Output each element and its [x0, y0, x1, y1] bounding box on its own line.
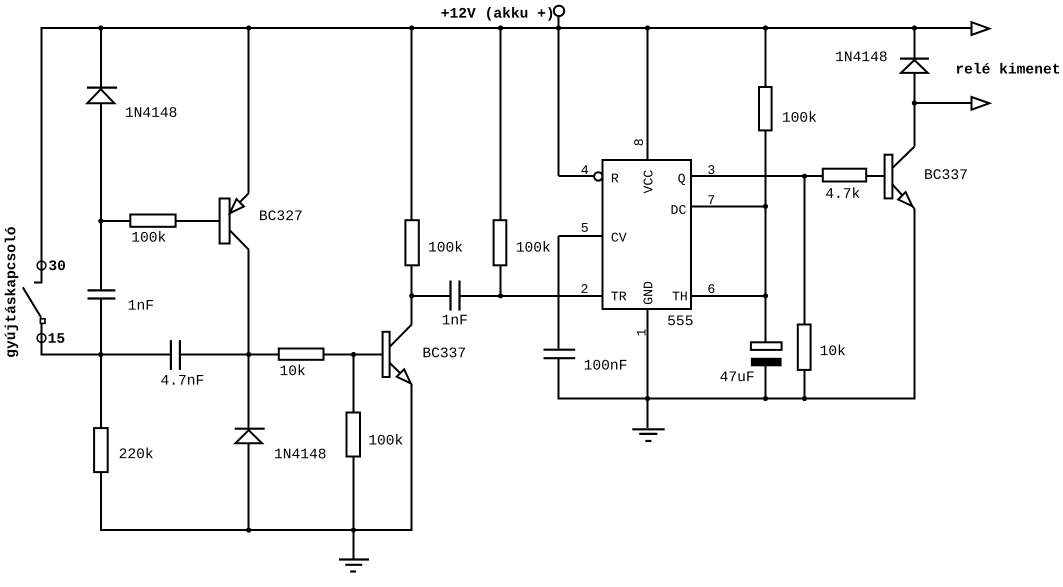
wire main node line left [41, 354, 170, 356]
capacitor C5 47uF negative plate [751, 358, 782, 367]
svg-text:555: 555 [667, 314, 693, 330]
svg-text:5: 5 [581, 221, 589, 236]
diode D1 cathode bar [87, 86, 117, 88]
svg-text:R: R [611, 171, 619, 186]
node dot TH pin line [763, 293, 768, 298]
wire BC327 collector down to diode D2 [248, 250, 250, 428]
wire x101 diode D1 to C 1nF [100, 103, 102, 289]
transistor Q3 BC337 emitter arrow [898, 192, 912, 206]
wire diode D3 to relay node [913, 73, 915, 104]
wire x765 top rail through R 100k to C 47uF [765, 27, 767, 342]
terminal circle 15 [37, 334, 46, 343]
transistor Q3 BC337 emitter diagonal [892, 184, 914, 208]
svg-text:BC327: BC327 [259, 209, 303, 225]
svg-text:100k: 100k [516, 241, 551, 257]
svg-text:30: 30 [48, 259, 66, 275]
svg-text:BC337: BC337 [422, 346, 466, 362]
transistor Q3 BC337 base bar [885, 155, 893, 199]
resistor R2 220k [94, 428, 108, 472]
wire pin 7 DC lead [691, 205, 766, 207]
node dot relay output [912, 100, 917, 105]
wire x412 top rail through R 100k to node [411, 27, 413, 296]
svg-text:10k: 10k [279, 364, 306, 380]
wire pin 4 R lead [559, 175, 595, 177]
wire x353 through R 100k to bottom rail [353, 355, 355, 532]
svg-text:220k: 220k [119, 447, 154, 463]
wire left rail to switch contact [41, 27, 43, 283]
node dot base Q1 [98, 218, 103, 223]
resistor R9 4.7k base of Q3 [823, 169, 866, 182]
switch blade gyújtáskapcsoló [23, 287, 41, 317]
svg-text:CV: CV [611, 231, 627, 246]
svg-text:3: 3 [707, 163, 715, 178]
diode D2 cathode bar [235, 428, 265, 430]
svg-text:6: 6 [707, 282, 715, 297]
wire x804 node through R 10k to right ground rail [804, 176, 806, 399]
wire TR node line right of C 1nF to pin 2 [461, 295, 603, 297]
diode D2 1N4148 triangle [236, 430, 263, 443]
diode D3 1N4148 triangle [901, 60, 928, 73]
svg-text:1N4148: 1N4148 [835, 50, 888, 66]
wire BC337 right base [866, 175, 884, 177]
svg-text:1nF: 1nF [128, 299, 154, 315]
wire pin 1 GND [647, 309, 649, 400]
transistor Q2 BC337 collector diagonal [389, 324, 411, 347]
resistor R5 100k collector load [405, 220, 418, 265]
resistor R7 100k timing [759, 87, 772, 130]
resistor R3 100k base of Q2 [347, 413, 361, 457]
svg-text:4: 4 [581, 163, 589, 178]
svg-text:100k: 100k [131, 231, 166, 247]
svg-text:GND: GND [641, 281, 656, 305]
ground symbol left bars [339, 558, 369, 560]
transistor Q1 BC327 emitter diagonal [229, 193, 248, 213]
terminal circle 30 [37, 261, 46, 270]
node dots on +12V rail [98, 25, 103, 30]
wire top rail to pin 4 reset [558, 27, 560, 176]
svg-text:47uF: 47uF [720, 370, 755, 386]
svg-text:100k: 100k [782, 111, 817, 127]
transistor Q2 BC337 emitter arrow [397, 369, 411, 383]
wire BC337 mid emitter vertical to bottom rail [411, 384, 413, 531]
wire terminal 15 stub [41, 323, 43, 356]
wire BC327 base [101, 220, 220, 222]
wire top rail to diode D3 [913, 27, 915, 58]
transistor Q2 BC337 emitter diagonal [389, 363, 411, 385]
wire pin 5 CV lead [559, 235, 603, 237]
wire +12V terminal stub [558, 16, 560, 29]
ground symbol right bars [632, 428, 664, 430]
transistor Q1 BC327 emitter arrow [230, 199, 244, 213]
resistor R6 100k pull-up [494, 220, 507, 265]
wire x500 top rail through R 100k to TR node [500, 27, 502, 296]
resistor R8 10k vertical [798, 325, 811, 370]
wire relay node to BC337 right collector [913, 103, 915, 147]
wire pin 8 VCC [647, 27, 649, 160]
node dots right ground rail [645, 396, 650, 401]
node dot DC pin line [763, 204, 768, 209]
capacitor C4 100nF plates [544, 349, 576, 351]
wire bottom left ground rail [100, 529, 412, 531]
transistor Q2 BC337 base bar [383, 332, 390, 377]
terminal circle +12V [554, 6, 564, 16]
svg-text:15: 15 [48, 332, 66, 348]
wire right ground rail [558, 398, 915, 400]
svg-text:Q: Q [678, 171, 686, 186]
op-amp 555 IC body U1 [603, 160, 692, 309]
svg-text:1N4148: 1N4148 [274, 447, 327, 463]
svg-text:7: 7 [707, 193, 715, 208]
svg-text:BC337: BC337 [924, 168, 968, 184]
svg-text:100k: 100k [368, 433, 403, 449]
svg-text:10k: 10k [820, 344, 847, 360]
svg-text:relé kimenet: relé kimenet [955, 62, 1060, 78]
svg-text:gyújtáskapcsoló: gyújtáskapcsoló [4, 226, 20, 358]
svg-text:1nF: 1nF [442, 313, 468, 329]
svg-text:TR: TR [611, 289, 627, 304]
wire BC327 emitter to top rail [248, 27, 250, 193]
svg-text:+12V (akku +): +12V (akku +) [441, 7, 555, 23]
capacitor C3 1nF plates horizontal pair [449, 281, 451, 311]
transistor Q1 BC327 collector diagonal [229, 230, 248, 250]
capacitor C1 1nF plates vertical pair [88, 289, 116, 291]
wire x101 top to diode D1 [100, 27, 102, 87]
wire diode D2 to bottom rail [248, 443, 250, 531]
svg-text:1N4148: 1N4148 [125, 106, 178, 122]
wire BC337 mid collector vertical [411, 296, 413, 325]
wire x101 C 1nF through R 220k to bottom rail [100, 300, 102, 532]
wire pin 3 Q lead [691, 175, 823, 177]
wire relay node to output arrow [914, 102, 971, 104]
wire main node line right of C 4.7nF [181, 354, 383, 356]
switch blade contact square [40, 319, 45, 324]
diode D1 1N4148 triangle [87, 89, 114, 103]
svg-text:VCC: VCC [641, 170, 656, 194]
diode D3 cathode bar [900, 57, 929, 59]
capacitor C2 4.7nF plates [170, 340, 172, 370]
node dots bottom rail [246, 527, 251, 532]
node dot Q pin line [802, 174, 807, 179]
svg-text:2: 2 [580, 282, 588, 297]
wire top +12V rail [41, 27, 972, 29]
output arrow upper [972, 22, 990, 35]
pin 4 reset bubble [594, 172, 602, 180]
svg-text:4.7nF: 4.7nF [160, 374, 204, 390]
ground symbol stub left [353, 530, 355, 559]
wire BC337 right emitter to right ground rail [913, 208, 915, 399]
svg-text:4.7k: 4.7k [825, 187, 860, 203]
wire C 47uF to right ground rail [765, 366, 767, 399]
node dots on main line [98, 352, 103, 357]
ground symbol stub right [647, 399, 649, 429]
svg-text:TH: TH [672, 289, 688, 304]
wire pin 6 TH lead [691, 295, 766, 297]
wire C 100nF to right ground rail [558, 359, 560, 399]
wire switch upper contact foot [34, 282, 43, 284]
transistor Q1 BC327 base bar [220, 199, 230, 244]
wire TR node line left of C 1nF [412, 295, 450, 297]
resistor R4 10k horizontal [279, 349, 324, 360]
resistor R1 100k base of Q1 [130, 215, 175, 227]
output arrow lower [972, 97, 990, 110]
svg-text:DC: DC [671, 203, 687, 218]
node dots on TR line [409, 293, 414, 298]
capacitor C5 47uF positive plate [751, 342, 782, 350]
svg-text:100nF: 100nF [584, 359, 628, 375]
svg-text:100k: 100k [428, 241, 463, 257]
transistor Q3 BC337 collector diagonal [892, 147, 914, 169]
svg-text:8: 8 [632, 138, 647, 146]
svg-text:1: 1 [634, 329, 649, 337]
wire CV branch down to C 100nF [558, 236, 560, 349]
